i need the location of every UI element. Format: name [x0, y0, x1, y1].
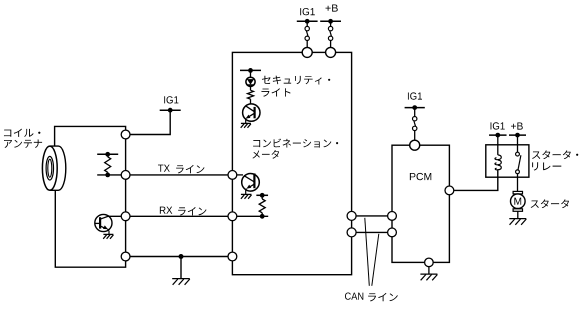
- terminal stub meter resistor: [256, 193, 268, 198]
- label RX line: [160, 207, 207, 216]
- wire ground stem: [180, 257, 182, 279]
- connector pin bus GND: [121, 252, 130, 261]
- label combination meter: [252, 139, 338, 159]
- node resistor-RX junction: [260, 214, 265, 219]
- pin meter IG1: [302, 47, 312, 57]
- net label IG1 PCM: [408, 92, 422, 99]
- net label +B relay: [511, 122, 523, 129]
- pin PCM CAN1: [388, 212, 397, 221]
- terminal +B top: [320, 19, 341, 24]
- pin meter GND: [228, 252, 237, 261]
- wire coil top to bus: [55, 126, 126, 146]
- transistor Q-left: [95, 214, 112, 234]
- wire stub to LED: [250, 70, 252, 77]
- transistor Q3 meter: [242, 173, 260, 194]
- net label IG1 relay: [491, 122, 505, 129]
- relay switch: [516, 152, 521, 174]
- connector IG1 PCM: [413, 108, 417, 141]
- connector pin bus RX: [121, 212, 130, 221]
- terminal IG1 left: [160, 108, 181, 113]
- wire meter TX internal: [237, 174, 243, 176]
- relay coil: [495, 155, 501, 171]
- wire LED to resistor: [250, 86, 252, 90]
- wire +B to switch: [517, 135, 519, 152]
- leader line CAN2: [372, 234, 379, 286]
- net label IG1 left: [164, 96, 178, 103]
- pin PCM starter: [445, 186, 454, 195]
- wire meter RX internal: [237, 215, 268, 217]
- label coil antenna: [4, 129, 42, 148]
- label starter: [531, 199, 569, 208]
- pin meter RX: [228, 212, 237, 221]
- ground starter: [509, 219, 526, 225]
- wire CAN low: [356, 231, 388, 233]
- ground main: [172, 279, 190, 285]
- node ground junction: [179, 254, 184, 259]
- wire ground line: [130, 256, 232, 258]
- starter motor M: [511, 191, 526, 211]
- terminal IG1 top: [297, 19, 318, 24]
- label TX line: [158, 165, 204, 174]
- terminal stub above resistor: [97, 152, 118, 157]
- ground under Q-left: [103, 234, 113, 238]
- wire resistor to TX line: [97, 174, 125, 176]
- connector IG1 top: [305, 21, 309, 47]
- pin meter +B: [326, 47, 336, 57]
- label starter relay: [532, 150, 578, 170]
- pin meter TX: [228, 171, 237, 180]
- wire switch to starter: [517, 174, 519, 192]
- net label IG1 top: [300, 8, 315, 15]
- wire coil bottom to bus: [55, 190, 125, 267]
- terminal stub security: [240, 68, 261, 73]
- wire RX line: [130, 215, 232, 217]
- wire resistor to Q2: [250, 99, 252, 104]
- wire CAN high: [356, 215, 388, 217]
- wire IG1 to bus: [126, 110, 171, 134]
- pin meter CAN1: [347, 211, 356, 220]
- wire Q-left collector to RX: [108, 215, 126, 217]
- starter relay box: [486, 145, 529, 177]
- connector pin bus TX: [121, 171, 130, 180]
- resistor meter: [259, 195, 265, 214]
- PCM box: [392, 145, 449, 262]
- wire IG1 to relay coil: [497, 135, 499, 155]
- leader line CAN1: [365, 218, 370, 286]
- pin PCM CAN2: [388, 228, 397, 237]
- resistor security: [248, 90, 254, 99]
- connector +B top: [328, 21, 332, 47]
- terminal +B relay: [509, 133, 526, 138]
- wire PCM ground stem: [428, 267, 430, 274]
- connector pin bus IG1: [121, 130, 130, 139]
- wire relay coil to PCM: [454, 171, 498, 191]
- ground under Q3: [241, 194, 252, 198]
- wire bus vertical: [125, 135, 127, 257]
- node resistor-TX junction: [105, 173, 110, 178]
- label CAN line: [345, 292, 398, 301]
- wire TX line: [130, 174, 232, 176]
- terminal IG1 PCM: [405, 105, 425, 110]
- coil antenna: [42, 146, 65, 190]
- pin meter CAN2: [347, 228, 356, 237]
- net label +B top: [325, 4, 337, 11]
- terminal IG1 relay: [489, 133, 507, 138]
- transistor Q2 security: [243, 104, 260, 124]
- ground PCM: [420, 274, 437, 280]
- label security light: [261, 76, 330, 97]
- ground under Q2: [241, 123, 251, 127]
- combination meter box: [232, 52, 351, 274]
- pin PCM GND: [425, 258, 434, 267]
- wire motor to ground: [517, 211, 519, 218]
- pin PCM IG1: [410, 140, 420, 150]
- LED security light: [246, 77, 255, 86]
- label PCM: [410, 173, 431, 180]
- resistor R-left: [105, 154, 111, 175]
